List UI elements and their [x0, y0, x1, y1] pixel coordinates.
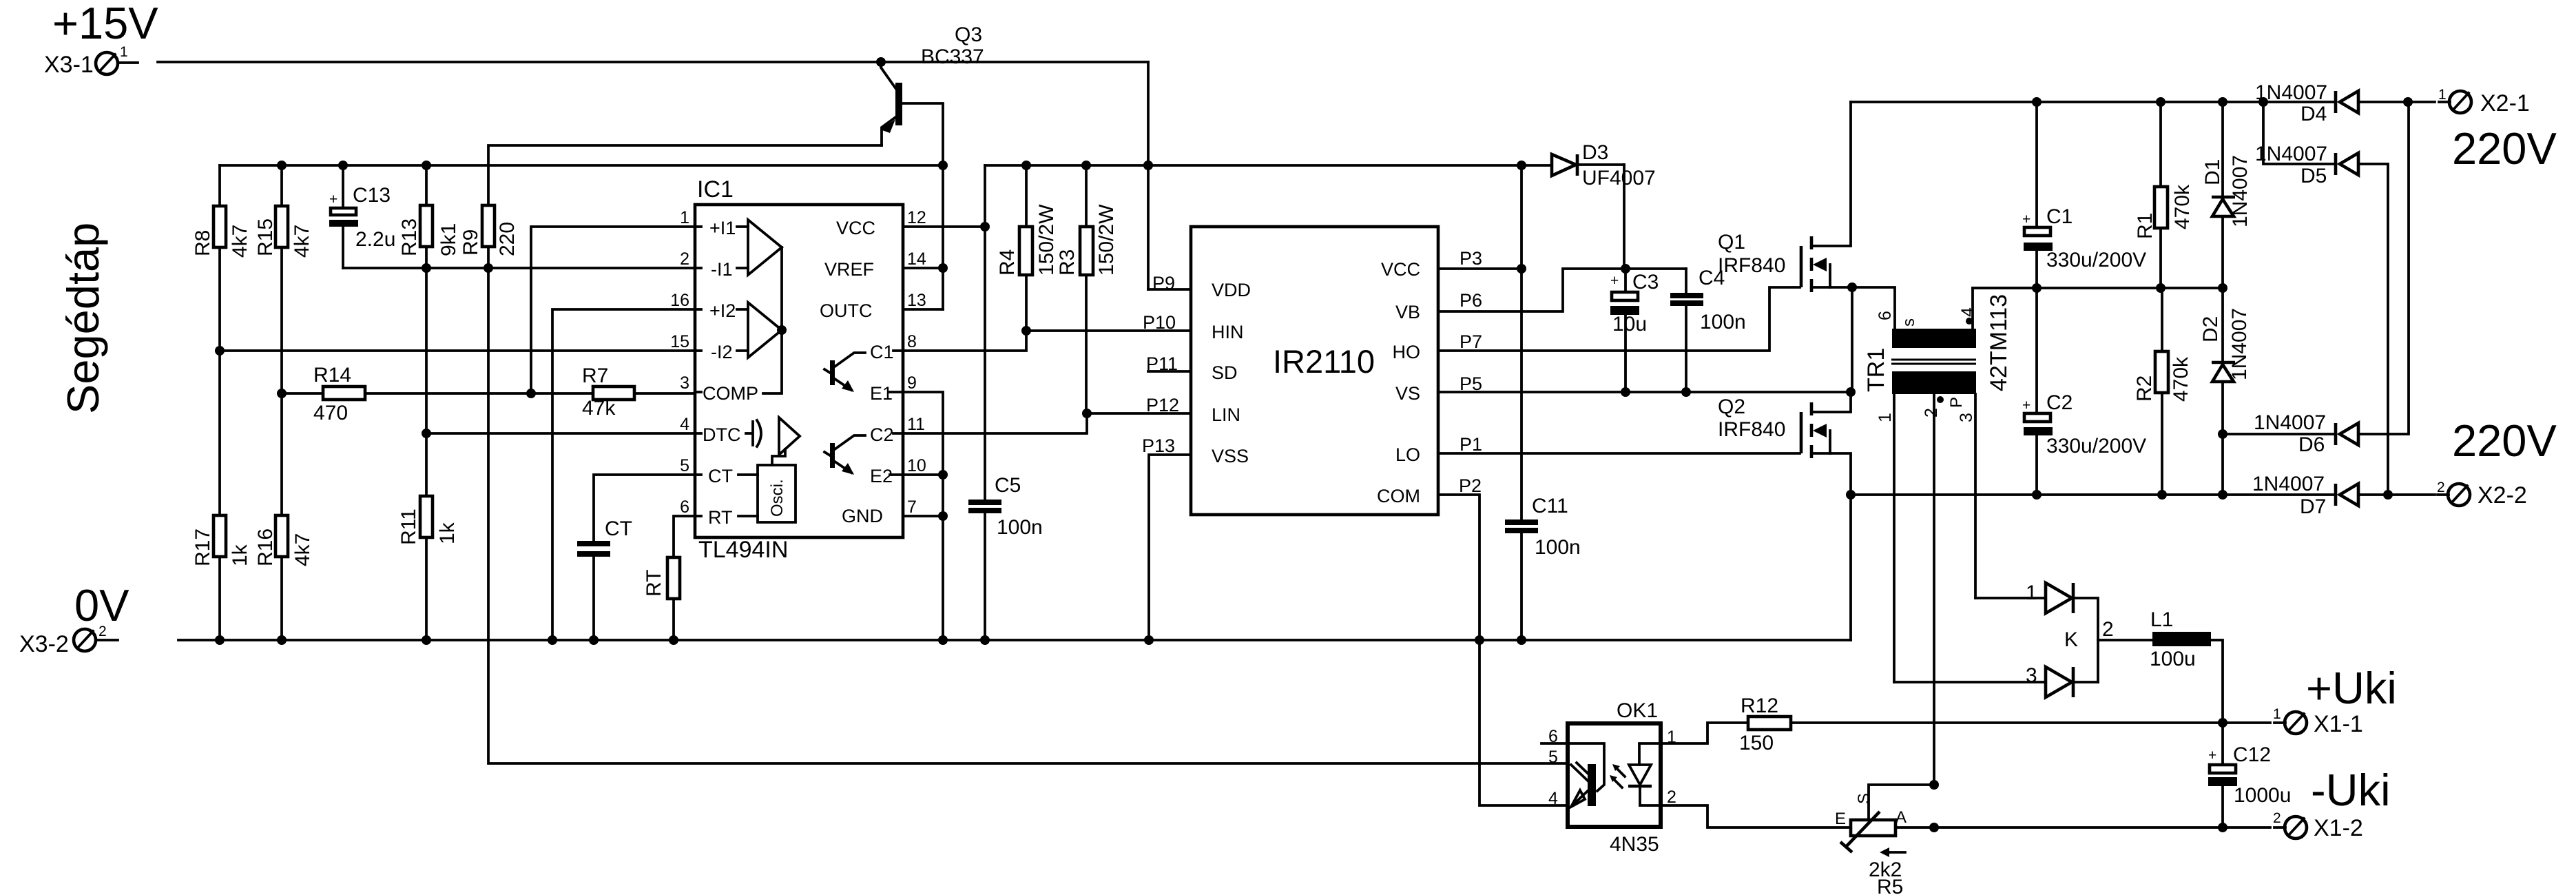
svg-text:HIN: HIN — [1212, 322, 1244, 342]
wire D2 to X2-2 line — [2221, 434, 2224, 495]
node +15V junction at Q3 collector — [876, 57, 886, 67]
svg-text:5: 5 — [680, 456, 689, 475]
svg-text:1N4007: 1N4007 — [2229, 155, 2252, 227]
svg-text:Osci.: Osci. — [768, 479, 787, 517]
IC1 internal comparator 2 — [737, 302, 782, 358]
diode D7 — [2252, 473, 2388, 518]
terminal X2-2 — [2437, 480, 2527, 508]
svg-text:-Uki: -Uki — [2311, 765, 2391, 815]
IC1 internal DTC comparator — [746, 418, 800, 465]
svg-text:RT: RT — [708, 507, 733, 528]
svg-text:1N4007: 1N4007 — [2255, 143, 2327, 165]
svg-text:100n: 100n — [1535, 536, 1581, 559]
node HIN junction — [1021, 326, 1031, 336]
svg-text:4N35: 4N35 — [1610, 833, 1659, 856]
wire pin7 GND — [903, 515, 943, 517]
svg-text:2.2u: 2.2u — [355, 228, 395, 251]
svg-text:GND: GND — [842, 506, 883, 526]
capacitor C3 — [1610, 269, 1659, 392]
IC1 internal transistor 2 — [824, 433, 903, 475]
capacitor C4 — [1670, 267, 1746, 392]
wire +I2 link — [552, 309, 695, 640]
svg-text:+: + — [2022, 398, 2030, 413]
svg-text:9k1: 9k1 — [437, 223, 460, 256]
capacitor C11 — [1505, 495, 1581, 559]
transistor Q2 MOSFET — [1718, 392, 1851, 495]
resistor R9 — [459, 145, 882, 268]
svg-text:+: + — [329, 192, 337, 207]
resistor R16 — [254, 393, 314, 640]
svg-text:R15: R15 — [254, 218, 277, 256]
wire LO to Q2 gate — [1438, 452, 1800, 455]
svg-text:1: 1 — [2273, 706, 2281, 722]
wire pin13 OUTC — [903, 308, 943, 311]
svg-text:+: + — [2208, 748, 2216, 763]
svg-text:4: 4 — [1958, 307, 1977, 317]
svg-text:IR2110: IR2110 — [1273, 343, 1375, 380]
svg-text:LO: LO — [1395, 444, 1420, 465]
svg-text:C3: C3 — [1632, 271, 1659, 294]
resistor R4 — [996, 165, 1058, 331]
svg-text:IRF840: IRF840 — [1718, 254, 1785, 277]
node DTC junction — [422, 429, 431, 438]
svg-text:2: 2 — [2102, 618, 2114, 641]
svg-text:10: 10 — [907, 456, 926, 475]
resistor RT — [643, 516, 695, 640]
svg-text:150/2W: 150/2W — [1095, 204, 1118, 276]
wire pin10 E2 — [903, 473, 943, 476]
svg-text:D4: D4 — [2300, 103, 2327, 125]
IC1 internal comparator 1 — [737, 220, 782, 275]
terminal X3-1 — [44, 44, 138, 78]
wire X2-1 terminal — [2408, 101, 2435, 103]
svg-text:TL494IN: TL494IN — [698, 537, 788, 563]
terminal X1-1 — [2273, 706, 2363, 737]
IC1 pin numbers left — [670, 208, 689, 517]
svg-text:13: 13 — [907, 291, 926, 310]
svg-text:100n: 100n — [1700, 311, 1746, 333]
svg-text:IRF840: IRF840 — [1718, 418, 1785, 441]
svg-text:X2-2: X2-2 — [2478, 482, 2527, 508]
svg-text:L1: L1 — [2150, 608, 2173, 631]
svg-text:R7: R7 — [582, 364, 608, 387]
svg-text:VB: VB — [1395, 302, 1420, 322]
svg-text:P12: P12 — [1146, 395, 1179, 415]
svg-text:HO: HO — [1393, 342, 1421, 362]
svg-text:OUTC: OUTC — [820, 300, 873, 321]
svg-text:4k7: 4k7 — [229, 225, 251, 258]
svg-text:7: 7 — [907, 497, 917, 517]
node D4 anode junction — [2403, 97, 2413, 107]
terminal X1-2 — [2273, 810, 2363, 841]
node VREF column junctions — [938, 263, 948, 273]
svg-text:P2: P2 — [1459, 475, 1482, 496]
diode A1 rectifier — [1975, 582, 2098, 682]
svg-text:COMP: COMP — [703, 383, 758, 404]
svg-text:R2: R2 — [2133, 376, 2156, 402]
svg-text:150: 150 — [1739, 732, 1774, 754]
svg-text:P1: P1 — [1460, 434, 1482, 455]
wire opto feedback R9 to OK1 pin5 — [488, 268, 1567, 763]
svg-text:8: 8 — [907, 332, 917, 351]
svg-text:E: E — [1835, 810, 1846, 828]
svg-text:100n: 100n — [997, 516, 1043, 539]
svg-text:X1-2: X1-2 — [2314, 815, 2363, 841]
svg-text:R9: R9 — [459, 229, 482, 256]
svg-text:P6: P6 — [1460, 290, 1482, 311]
svg-text:12: 12 — [907, 208, 926, 227]
wire +Uki line — [1791, 721, 2223, 724]
svg-text:C11: C11 — [1532, 495, 1568, 517]
svg-text:14: 14 — [907, 249, 926, 269]
node COMP/+I1 junction — [526, 389, 536, 398]
svg-text:9: 9 — [907, 373, 917, 393]
svg-text:BC337: BC337 — [921, 45, 984, 68]
capacitor C12 — [2208, 723, 2291, 827]
svg-text:C1: C1 — [870, 342, 894, 362]
svg-text:47k: 47k — [582, 397, 616, 420]
svg-text:C2: C2 — [870, 424, 894, 445]
svg-text:1k: 1k — [436, 522, 459, 544]
svg-text:R13: R13 — [398, 218, 421, 256]
svg-text:+Uki: +Uki — [2306, 663, 2397, 713]
svg-text:R8: R8 — [191, 230, 214, 256]
resistor R2 — [2133, 288, 2192, 495]
svg-text:C13: C13 — [353, 184, 391, 207]
svg-text:4k7: 4k7 — [291, 533, 314, 566]
svg-text:1N4007: 1N4007 — [2255, 81, 2327, 104]
svg-text:C1: C1 — [2046, 205, 2073, 228]
wire -Uki line — [1895, 826, 2270, 829]
svg-text:C5: C5 — [995, 474, 1021, 497]
node D7 anode junction — [2383, 490, 2393, 500]
IC U1 TL494 box — [695, 176, 903, 563]
diode D5 — [2255, 102, 2388, 495]
svg-text:10u: 10u — [1612, 313, 1647, 336]
terminal X3-2 — [19, 624, 118, 657]
wire pin14 VREF — [903, 267, 943, 269]
node 0V junctions — [215, 635, 225, 645]
wire VB step — [1438, 269, 1686, 311]
wire R13 to R11 — [425, 268, 428, 496]
resistor R7 — [531, 364, 695, 420]
capacitor C1 — [2022, 102, 2146, 288]
svg-text:A: A — [1895, 808, 1907, 827]
svg-text:15: 15 — [670, 332, 689, 351]
resistor R14 — [282, 364, 531, 424]
svg-text:330u/200V: 330u/200V — [2046, 249, 2146, 271]
wire HO to Q1 gate — [1438, 287, 1800, 351]
svg-text:X3-2: X3-2 — [19, 631, 69, 657]
potentiometer R5 — [1835, 780, 1939, 895]
svg-text:VSS: VSS — [1212, 446, 1249, 466]
svg-text:D6: D6 — [2298, 433, 2325, 456]
svg-text:3: 3 — [2026, 664, 2037, 687]
wire VCC column down through C11 — [1520, 165, 1523, 519]
transformer TR1 — [1863, 288, 2037, 785]
svg-text:R3: R3 — [1056, 249, 1079, 276]
svg-text:OK1: OK1 — [1617, 699, 1658, 722]
capacitor CT — [577, 475, 695, 640]
wire SD stub — [1148, 370, 1191, 373]
svg-text:-I2: -I2 — [711, 342, 733, 362]
svg-text:2: 2 — [2273, 810, 2281, 826]
svg-text:RT: RT — [643, 570, 665, 597]
IC1 pin names left — [703, 218, 758, 528]
svg-text:S: S — [1855, 793, 1873, 804]
resistor R1 — [2134, 102, 2194, 288]
svg-text:+15V: +15V — [52, 0, 158, 48]
svg-text:42TM113: 42TM113 — [1986, 294, 2012, 391]
svg-text:1N4007: 1N4007 — [2254, 411, 2326, 434]
svg-text:X3-1: X3-1 — [44, 52, 94, 78]
svg-text:4k7: 4k7 — [291, 225, 313, 258]
IC1 pin lead stubs — [695, 225, 701, 228]
node LIN junction — [1082, 409, 1092, 418]
wire COM column to OK1 pin4 — [1479, 640, 1567, 805]
wire VCC pin to rail — [1438, 267, 1521, 270]
svg-text:1: 1 — [1876, 413, 1895, 422]
diode D1 — [2201, 102, 2252, 288]
svg-text:VS: VS — [1395, 383, 1420, 404]
svg-text:2: 2 — [1922, 408, 1941, 418]
svg-text:16: 16 — [670, 291, 689, 310]
svg-text:R16: R16 — [254, 528, 277, 566]
svg-text:470: 470 — [313, 402, 348, 424]
svg-text:R4: R4 — [996, 249, 1019, 276]
svg-text:470k: 470k — [2171, 184, 2194, 229]
svg-text:E2: E2 — [870, 466, 893, 486]
diode D3 — [1552, 141, 1656, 269]
svg-text:D3: D3 — [1582, 141, 1608, 164]
wire -I2 to pin15 — [220, 349, 695, 352]
svg-text:220V: 220V — [2452, 123, 2557, 174]
svg-text:1N4007: 1N4007 — [2228, 308, 2251, 380]
svg-text:2: 2 — [1667, 788, 1676, 807]
svg-text:LIN: LIN — [1212, 404, 1240, 425]
svg-text:s: s — [1900, 318, 1918, 327]
svg-text:Q1: Q1 — [1718, 231, 1745, 254]
svg-text:R11: R11 — [397, 508, 420, 545]
wire +15V top — [158, 61, 1148, 63]
wire C13 to -I1 — [343, 267, 695, 269]
svg-text:1: 1 — [2438, 87, 2447, 103]
wire OK1 pin1 to R12 — [1661, 723, 1748, 743]
svg-text:0V: 0V — [74, 580, 129, 630]
svg-text:DTC: DTC — [703, 424, 741, 445]
svg-text:P10: P10 — [1143, 312, 1176, 333]
svg-text:5: 5 — [1548, 748, 1558, 767]
wire comparator outputs to COMP — [763, 247, 782, 393]
wire VREF rail — [220, 164, 943, 167]
svg-text:C2: C2 — [2046, 391, 2073, 414]
IC1 internal transistor 1 — [824, 351, 903, 392]
transistor Q3 — [880, 23, 984, 309]
svg-text:COM: COM — [1377, 486, 1420, 506]
optocoupler OK1 — [1541, 699, 1676, 856]
svg-text:2: 2 — [680, 249, 689, 269]
svg-text:P3: P3 — [1460, 248, 1482, 269]
transistor Q1 MOSFET — [1718, 102, 1895, 392]
wire +15V down to VDD — [1147, 62, 1150, 289]
wire LIN — [1087, 412, 1191, 415]
svg-text:CT: CT — [708, 466, 733, 486]
svg-text:11: 11 — [907, 415, 925, 434]
IR2110 pin names — [1212, 259, 1420, 506]
wire X2-1 DC+ line — [1851, 101, 2334, 103]
svg-text:D7: D7 — [2300, 495, 2326, 518]
svg-text:P7: P7 — [1460, 331, 1482, 352]
resistor R17 — [191, 351, 251, 640]
svg-text:IC1: IC1 — [697, 176, 734, 203]
svg-text:X1-1: X1-1 — [2314, 711, 2363, 737]
wire +I1 link — [531, 227, 695, 393]
svg-text:-I1: -I1 — [711, 259, 733, 280]
wire VCC rail right — [985, 164, 1552, 167]
resistor R13 — [398, 165, 460, 268]
svg-text:D5: D5 — [2300, 165, 2327, 187]
svg-text:R12: R12 — [1741, 695, 1778, 717]
wire 0V rail — [178, 639, 1851, 641]
svg-text:VDD: VDD — [1212, 280, 1251, 300]
wire DTC to pin4 — [426, 432, 695, 435]
wire pin8 C1 — [903, 331, 1026, 351]
svg-text:1k: 1k — [229, 544, 251, 566]
svg-text:SD: SD — [1212, 362, 1238, 383]
diode D2 — [2199, 288, 2251, 434]
svg-text:330u/200V: 330u/200V — [2046, 435, 2146, 457]
svg-text:Q3: Q3 — [955, 23, 982, 46]
node COMP junction at R15/R16 — [277, 389, 287, 398]
svg-text:VCC: VCC — [1381, 259, 1420, 280]
svg-text:K: K — [2064, 628, 2078, 651]
capacitor C13 — [329, 165, 395, 268]
svg-text:+: + — [2022, 212, 2030, 227]
resistor R11 — [397, 496, 459, 640]
IC1 internal oscillator box — [738, 465, 796, 522]
svg-text:4: 4 — [1548, 789, 1558, 808]
svg-text:C12: C12 — [2233, 743, 2271, 766]
inductor L1 — [2098, 608, 2223, 723]
wire pin9 E1 — [903, 392, 943, 640]
svg-text:+: + — [1610, 273, 1619, 289]
svg-text:P: P — [1947, 397, 1966, 408]
svg-text:+I2: +I2 — [709, 300, 736, 321]
svg-text:E1: E1 — [870, 383, 893, 404]
IC1 pin names right — [820, 218, 894, 526]
wire mid rail — [1973, 287, 2223, 289]
resistor R8 — [191, 165, 251, 351]
svg-text:3: 3 — [680, 373, 689, 393]
terminal X2-1 — [2438, 87, 2530, 116]
svg-text:220V: 220V — [2452, 415, 2557, 466]
svg-text:Q2: Q2 — [1718, 395, 1745, 418]
svg-text:100u: 100u — [2150, 648, 2196, 670]
svg-text:CT: CT — [605, 517, 632, 540]
resistor R12 — [1739, 695, 1791, 754]
wire VSS to 0V — [1149, 455, 1191, 640]
svg-text:R17: R17 — [191, 528, 214, 566]
svg-text:1N4007: 1N4007 — [2252, 473, 2325, 495]
svg-text:Segédtáp: Segédtáp — [58, 223, 108, 414]
wire COM — [1438, 495, 1479, 640]
wire OK1 pin2 to R5 — [1661, 805, 1851, 827]
wire X2-2 DC- line — [1851, 493, 2334, 496]
diode A2 rectifier — [1894, 664, 2098, 697]
diode D6 — [2223, 102, 2409, 456]
IC U2 IR2110 box — [1191, 227, 1438, 515]
svg-text:1000u: 1000u — [2234, 784, 2291, 807]
svg-text:2: 2 — [2437, 480, 2445, 495]
svg-text:D1: D1 — [2201, 159, 2224, 185]
svg-text:3: 3 — [1957, 413, 1976, 422]
wire HIN — [1026, 329, 1191, 332]
svg-text:D2: D2 — [2199, 316, 2222, 342]
svg-text:6: 6 — [680, 497, 689, 517]
svg-text:6: 6 — [1876, 311, 1895, 320]
svg-text:UF4007: UF4007 — [1582, 167, 1656, 189]
node -I2 junction — [215, 346, 225, 356]
svg-text:P13: P13 — [1142, 435, 1175, 456]
IC1 pin numbers right — [907, 208, 926, 517]
svg-text:470k: 470k — [2170, 356, 2192, 402]
svg-text:220: 220 — [496, 222, 519, 256]
svg-text:1: 1 — [2026, 582, 2037, 604]
svg-text:R14: R14 — [313, 364, 351, 387]
svg-text:X2-1: X2-1 — [2480, 90, 2530, 116]
svg-text:150/2W: 150/2W — [1035, 204, 1058, 276]
wire VDD stub — [1148, 288, 1191, 291]
resistor R15 — [254, 165, 313, 393]
IR2110 P labels — [1142, 248, 1482, 496]
svg-text:+I1: +I1 — [709, 218, 736, 238]
node TR1 pin4 junction — [2032, 283, 2042, 293]
diode D4 — [2255, 81, 2408, 125]
wire X2-2 terminal — [2388, 493, 2435, 496]
wire pin11 C2 — [903, 413, 1087, 433]
wire pin12 VCC — [903, 225, 985, 228]
svg-text:R1: R1 — [2134, 213, 2157, 239]
svg-text:VREF: VREF — [824, 259, 874, 280]
wire VS — [1438, 391, 1851, 393]
capacitor C2 — [2022, 288, 2146, 495]
svg-text:4: 4 — [680, 415, 689, 434]
svg-text:1: 1 — [680, 208, 689, 227]
resistor R3 — [1056, 165, 1118, 413]
svg-text:R5: R5 — [1877, 876, 1903, 895]
svg-text:VCC: VCC — [836, 218, 875, 238]
svg-text:TR1: TR1 — [1863, 348, 1889, 392]
capacitor C5 — [968, 227, 1043, 640]
